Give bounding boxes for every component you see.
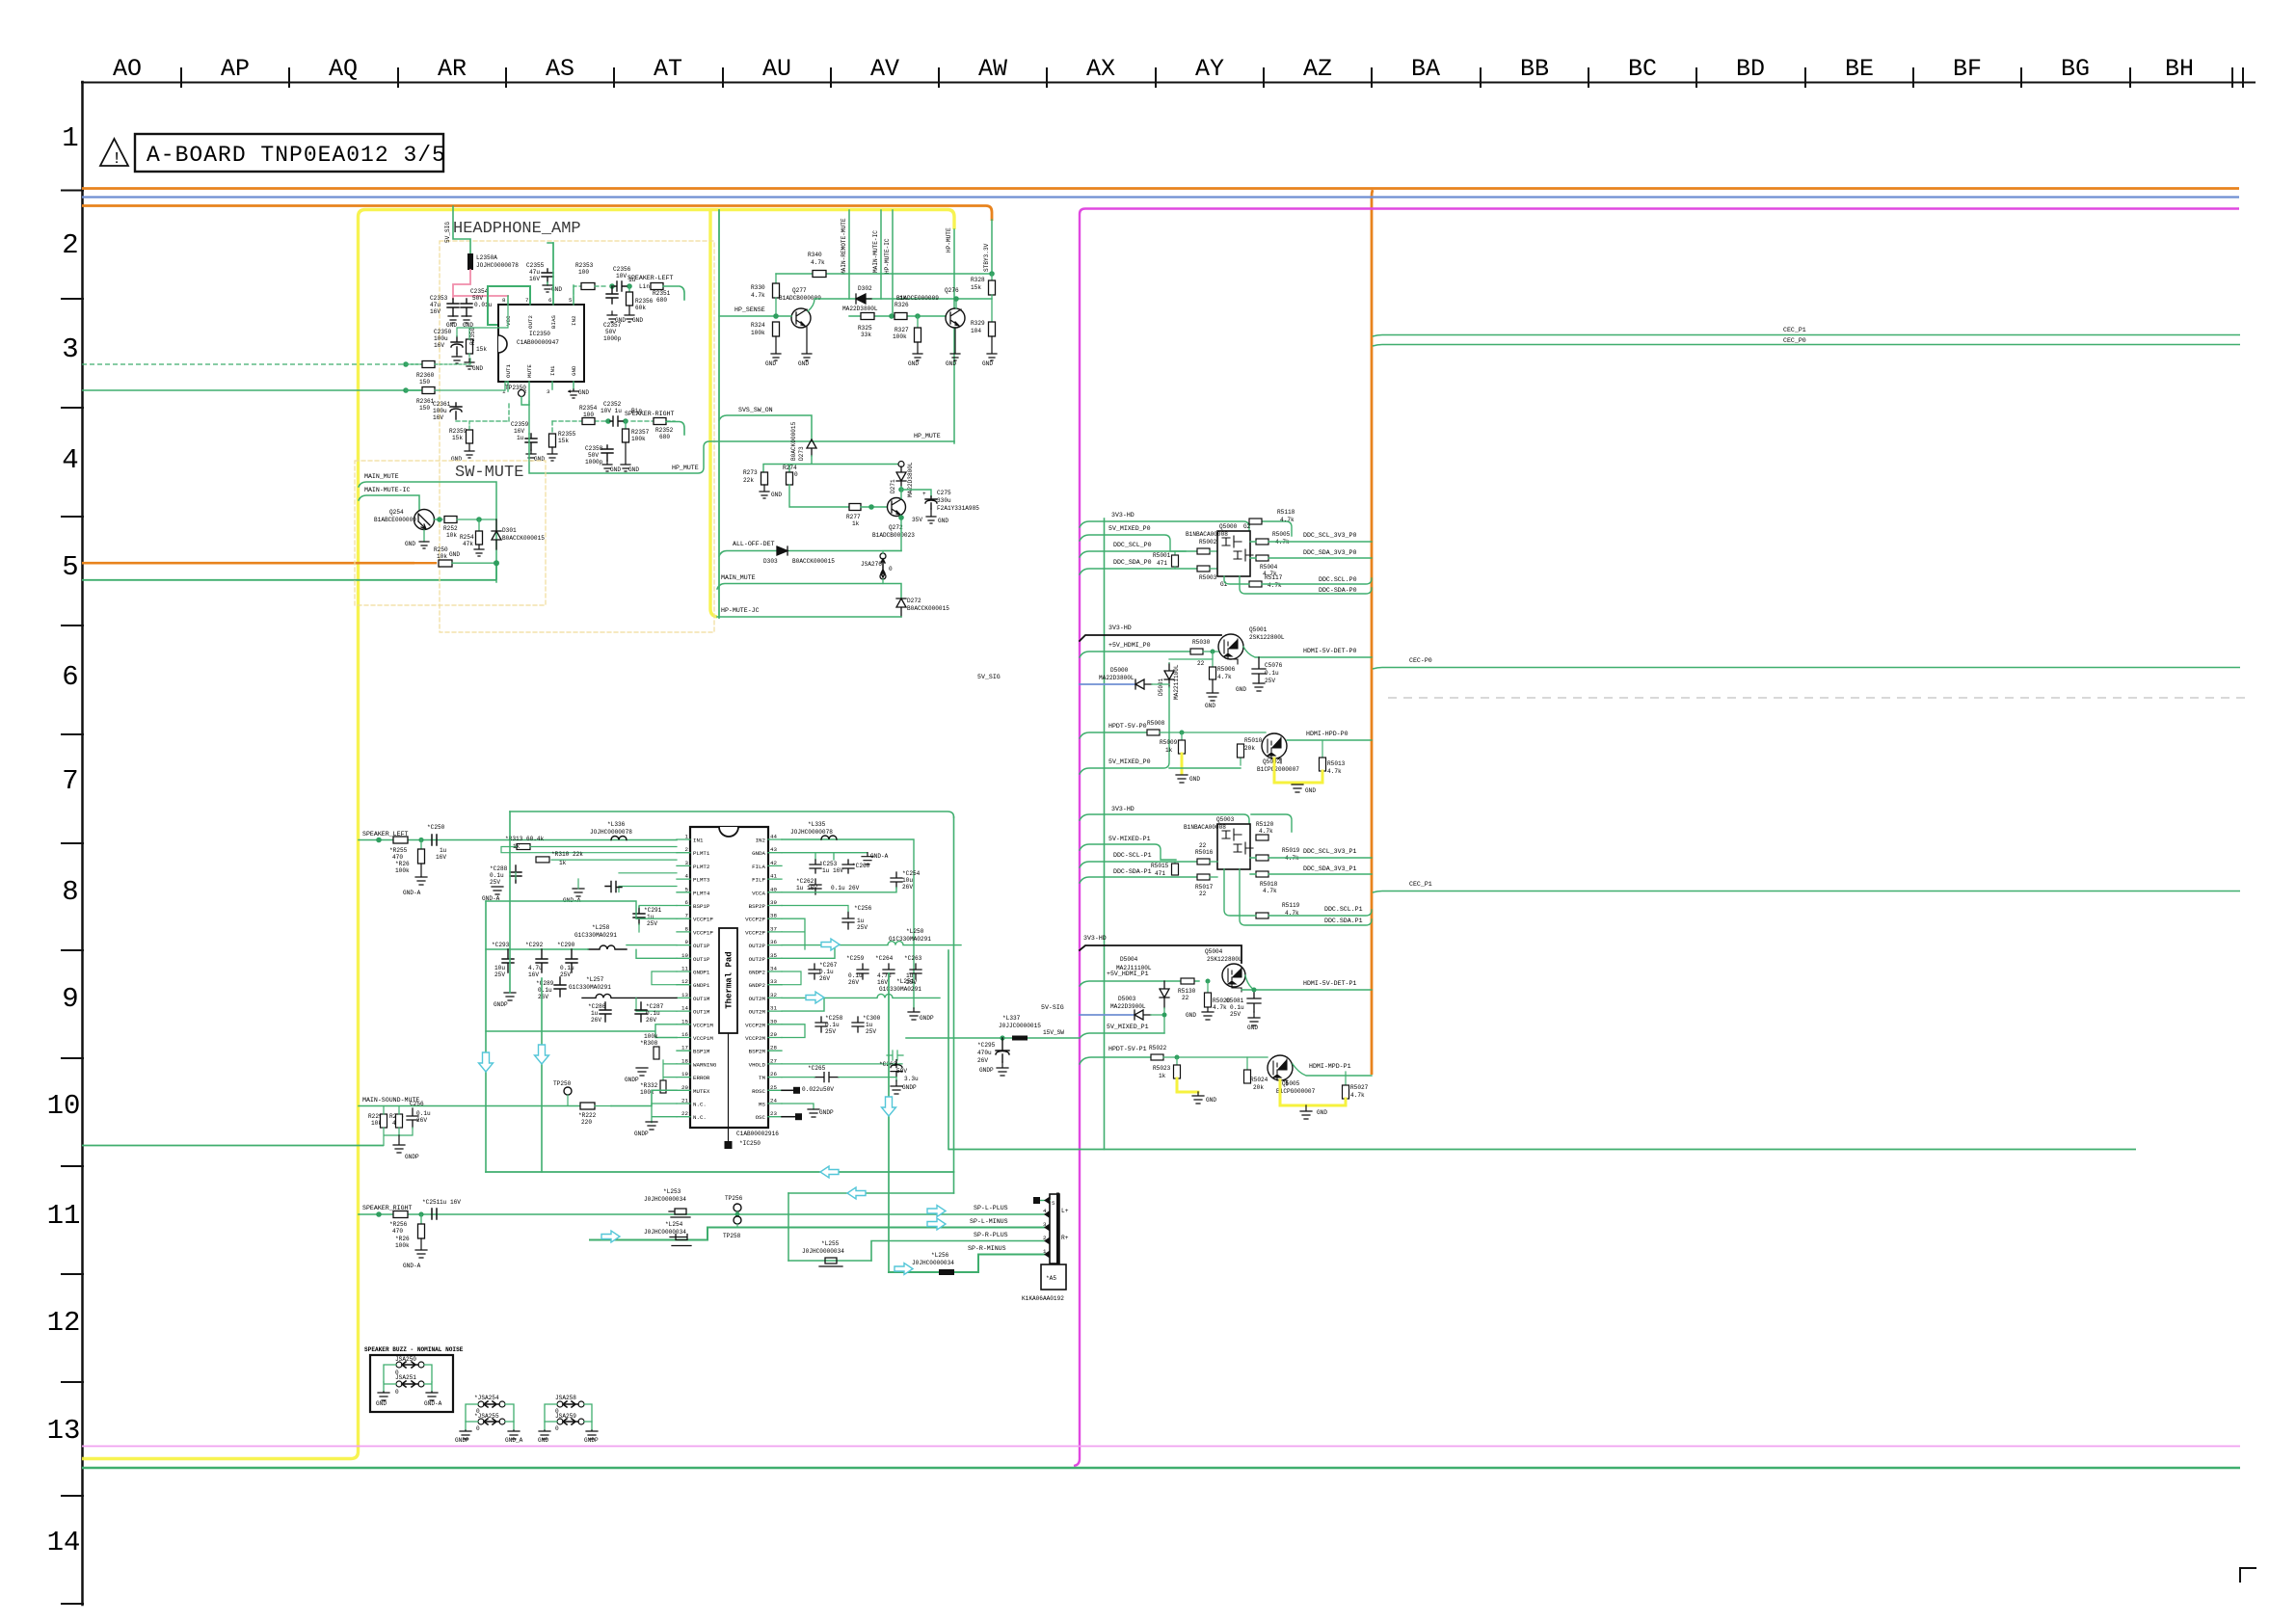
wire orange r250 [414, 562, 436, 564]
svg-text:4.7k: 4.7k [1259, 828, 1273, 835]
svg-text:26V: 26V [819, 975, 830, 982]
wire green dashed row3 [82, 363, 405, 365]
svg-text:GNDP: GNDP [979, 1067, 994, 1074]
svg-text:G1C330MA0291: G1C330MA0291 [569, 984, 611, 991]
svg-text:MA22D3800L: MA22D3800L [842, 306, 878, 312]
svg-text:*A5: *A5 [1046, 1275, 1056, 1282]
svg-text:MS: MS [759, 1102, 765, 1108]
svg-text:*L335: *L335 [808, 821, 826, 828]
capacitor C2355 [542, 269, 553, 282]
svg-text:3: 3 [547, 388, 550, 395]
svg-text:20k: 20k [1253, 1084, 1264, 1091]
svg-text:C1AB00002916: C1AB00002916 [736, 1131, 779, 1137]
svg-text:L2350A: L2350A [476, 254, 497, 261]
capacitor C275 [925, 496, 937, 509]
capacitor C293 [502, 949, 514, 972]
resistor R255 [393, 837, 408, 843]
svg-text:GND: GND [449, 551, 460, 558]
wire down to L255 [788, 1193, 789, 1261]
svg-text:HDMI-MPD-P1: HDMI-MPD-P1 [1309, 1063, 1351, 1070]
svg-text:HP-MUTE: HP-MUTE [946, 227, 952, 253]
svg-text:4: 4 [685, 873, 689, 880]
svg-text:3: 3 [62, 333, 78, 365]
wire out1p [486, 945, 677, 959]
ground R254 [474, 545, 484, 556]
svg-text:SPEAKER BUZZ - NOMINAL NOISE: SPEAKER BUZZ - NOMINAL NOISE [364, 1346, 464, 1353]
junction dots spr [376, 1211, 382, 1217]
resistor R5119 [1256, 913, 1268, 918]
capacitor C292 [536, 949, 547, 972]
svg-text:R5022: R5022 [1149, 1045, 1167, 1051]
svg-text:8: 8 [685, 925, 689, 932]
svg-text:Q5003: Q5003 [1216, 816, 1235, 823]
svg-text:SP-L-MINUS: SP-L-MINUS [970, 1218, 1008, 1225]
svg-text:1k: 1k [559, 860, 567, 866]
svg-text:GNDP: GNDP [494, 1001, 508, 1008]
resistor R2357 [625, 421, 627, 429]
svg-text:IN1: IN1 [693, 838, 704, 844]
svg-text:ALL-OFF-DET: ALL-OFF-DET [733, 541, 775, 547]
svg-text:19: 19 [681, 1071, 688, 1078]
svg-text:BSP1M: BSP1M [693, 1049, 710, 1055]
wire ddc_sda_p0 [1080, 569, 1197, 574]
svg-text:GND: GND [538, 1437, 548, 1444]
wire out2 loop [488, 286, 530, 325]
svg-text:27: 27 [770, 1057, 777, 1064]
svg-text:BD: BD [1736, 55, 1765, 83]
ground GNDP jsa2 [586, 1430, 598, 1439]
dashed block boundary [355, 461, 546, 605]
resistor R332 [660, 1080, 666, 1093]
svg-text:100k: 100k [395, 1242, 410, 1249]
fet block Q5003 [1217, 824, 1250, 869]
capacitor C265 [814, 1073, 839, 1082]
svg-text:AV: AV [870, 55, 899, 83]
wire 3v3-hd b4 black [1080, 945, 1241, 963]
svg-text:5V_SIG: 5V_SIG [977, 674, 1001, 680]
svg-text:680: 680 [656, 297, 667, 304]
wire 5v_mixed_p0 [1080, 535, 1186, 551]
ground GNDP c295 [997, 1062, 1008, 1076]
wire hpdt.5v.p0 [1080, 732, 1147, 738]
capacitor C295 [996, 1038, 1009, 1062]
svg-text:GNDP: GNDP [455, 1437, 469, 1444]
transistor Q277 [791, 308, 811, 328]
capacitor C287 [635, 1002, 647, 1022]
wire green CEC_P1 long [1373, 335, 2240, 337]
yellow gnd path r5009 [1181, 754, 1184, 773]
svg-text:25V: 25V [857, 924, 868, 931]
svg-text:16V: 16V [433, 414, 443, 421]
svg-text:*R26: *R26 [395, 1236, 410, 1242]
svg-text:7: 7 [525, 297, 529, 304]
wire left loop vertical2 [485, 901, 487, 1172]
svg-text:GND: GND [1206, 1097, 1216, 1104]
capacitor C266 vhold [782, 1051, 903, 1064]
svg-text:HP-MUTE-JC: HP-MUTE-JC [721, 607, 760, 614]
wire L255 row [788, 1260, 871, 1262]
svg-text:*L337: *L337 [1002, 1015, 1021, 1022]
svg-text:0.1u: 0.1u [538, 987, 552, 994]
diode D272 [896, 599, 906, 617]
svg-text:GND: GND [938, 518, 948, 524]
svg-text:GND: GND [1317, 1109, 1327, 1116]
svg-text:CEC_P1: CEC_P1 [1783, 327, 1806, 333]
grey dashed fold mark [1388, 697, 2246, 699]
svg-text:16V: 16V [436, 854, 446, 861]
svg-text:HDMI-HPD-P0: HDMI-HPD-P0 [1306, 731, 1348, 737]
wire ddc_sda_3v3_p0 out [1250, 557, 1372, 559]
svg-text:15: 15 [681, 1018, 688, 1024]
svg-text:L+: L+ [1061, 1208, 1069, 1214]
svg-text:GND: GND [610, 466, 621, 473]
svg-text:*C287: *C287 [646, 1003, 664, 1010]
wire q254 collector [434, 519, 442, 520]
diode D5003 [1135, 1010, 1151, 1020]
svg-text:Q254: Q254 [389, 509, 404, 516]
capacitor C2353 [447, 299, 459, 316]
svg-text:*C286: *C286 [588, 1003, 606, 1010]
svg-text:22: 22 [1199, 842, 1207, 849]
svg-text:R5004: R5004 [1260, 564, 1278, 571]
wire jsa276 links [883, 551, 901, 584]
svg-text:1000p: 1000p [603, 335, 622, 342]
svg-text:8: 8 [62, 876, 78, 908]
svg-text:15k: 15k [558, 438, 569, 444]
svg-text:33: 33 [770, 978, 777, 985]
svg-text:*C300: *C300 [863, 1015, 881, 1022]
svg-text:GND: GND [628, 466, 639, 473]
connector pin5 stub [1038, 1200, 1050, 1202]
svg-text:60k: 60k [635, 305, 646, 311]
svg-text:R5120: R5120 [1256, 821, 1274, 828]
arrow down1 [479, 1052, 494, 1072]
svg-text:C2350: C2350 [434, 329, 452, 335]
wire 5v_mixed_p1 [1080, 844, 1176, 860]
wire ddc.scl.p1 [1224, 869, 1372, 916]
wire +5v_hdmi_p0 [1080, 652, 1190, 657]
svg-text:25V: 25V [1230, 1011, 1241, 1018]
svg-text:9: 9 [62, 983, 78, 1015]
svg-text:5: 5 [569, 297, 573, 304]
wire green CEC-P0 mid [1373, 668, 2240, 670]
svg-text:5V_SIG: 5V_SIG [444, 222, 451, 243]
wire w1 right vertical [953, 817, 955, 1193]
resistor R5017 [1197, 874, 1210, 880]
capacitor C259 [857, 964, 868, 979]
wire 5v_sig blue p1 [1080, 1014, 1135, 1016]
svg-text:*C290: *C290 [557, 942, 575, 948]
svg-text:GND: GND [571, 365, 577, 376]
wire tm row [782, 1078, 896, 1081]
svg-text:14: 14 [681, 1005, 688, 1012]
wire d5003 net [1151, 1008, 1164, 1033]
svg-text:50V: 50V [588, 452, 599, 459]
wire mute dashed [456, 401, 529, 421]
svg-text:50V: 50V [896, 1068, 907, 1075]
svg-text:R5003: R5003 [1199, 574, 1217, 581]
svg-text:GND: GND [632, 317, 643, 324]
wire ddc_scl_3v3_p1 [1250, 857, 1372, 859]
svg-text:GND: GND [1186, 1012, 1196, 1019]
svg-text:7: 7 [62, 765, 78, 797]
wire main-sound-mute [359, 1090, 677, 1105]
transistor Q272 [888, 498, 906, 517]
wire nc pins [652, 1104, 677, 1123]
svg-text:HEADPHONE_AMP: HEADPHONE_AMP [453, 220, 581, 238]
svg-text:R5006: R5006 [1217, 666, 1236, 673]
svg-text:OUT2: OUT2 [527, 315, 534, 329]
svg-text:1k: 1k [513, 843, 521, 850]
diode D303 [777, 546, 788, 555]
svg-text:FILA: FILA [752, 864, 765, 870]
svg-text:AO: AO [113, 55, 142, 83]
pin osc stub [782, 1116, 795, 1118]
svg-text:OUT1M: OUT1M [693, 1009, 710, 1016]
ground R273 [760, 485, 769, 498]
wire jsa251 [384, 1382, 432, 1392]
svg-text:5: 5 [685, 886, 689, 892]
svg-text:2: 2 [685, 846, 689, 853]
wire hdmi-hpd-p0 [1287, 739, 1372, 741]
svg-text:*IC250: *IC250 [739, 1140, 761, 1147]
svg-text:AR: AR [438, 55, 467, 83]
capacitor C251 [432, 1209, 437, 1219]
svg-text:B1CPG000007: B1CPG000007 [1276, 1088, 1316, 1095]
ground GNDP left [504, 993, 516, 1000]
svg-text:4.7k: 4.7k [1268, 582, 1282, 589]
MUTE TRANSISTORS [719, 210, 997, 618]
resistor R5019 [1256, 855, 1268, 861]
svg-text:MUTE: MUTE [526, 364, 533, 378]
svg-text:150: 150 [419, 379, 430, 386]
ground GND-A spl [415, 864, 427, 885]
svg-text:26V: 26V [538, 994, 548, 1000]
wire plmt3 [551, 860, 677, 873]
wire ddc_sda_p1 [1080, 877, 1197, 883]
resistor R2360 [406, 363, 422, 365]
svg-text:Q5000: Q5000 [1219, 523, 1238, 530]
svg-text:MAIN_MUTE: MAIN_MUTE [721, 574, 756, 581]
svg-text:15k: 15k [476, 346, 487, 353]
svg-text:10V 1u: 10V 1u [601, 408, 622, 414]
HEADPHONE AMP [403, 206, 954, 632]
wire bsp2p [782, 906, 848, 912]
svg-text:*C262: *C262 [796, 878, 814, 885]
capacitor C289 [554, 977, 566, 997]
svg-text:R5117: R5117 [1265, 574, 1283, 581]
svg-text:0.1u: 0.1u [819, 969, 834, 975]
svg-text:10u: 10u [494, 965, 505, 971]
diode D5004 [1160, 981, 1169, 1008]
resistor R310 [536, 857, 549, 863]
svg-text:BF: BF [1953, 55, 1982, 83]
resistor R5002 [1197, 548, 1210, 554]
svg-text:F2A1Y331A985: F2A1Y331A985 [937, 505, 979, 512]
svg-text:50V: 50V [605, 329, 616, 335]
capacitor C2354 [461, 299, 472, 316]
svg-text:10: 10 [681, 952, 688, 959]
svg-text:VCCP2P: VCCP2P [745, 929, 765, 936]
svg-text:5: 5 [62, 551, 78, 583]
svg-text:100k: 100k [631, 436, 646, 442]
svg-text:26: 26 [770, 1071, 777, 1078]
svg-text:1u: 1u [591, 1010, 599, 1017]
svg-text:20k: 20k [1244, 745, 1255, 752]
svg-text:GNDP1: GNDP1 [693, 970, 710, 976]
junction dot d271 [898, 487, 904, 492]
svg-text:BSP1P: BSP1P [693, 903, 710, 910]
wire vcc branch [457, 296, 508, 339]
resistor R5030 [1190, 649, 1203, 654]
svg-text:MAIN-REMOTE-MUTE: MAIN-REMOTE-MUTE [841, 218, 847, 275]
svg-text:21: 21 [681, 1098, 688, 1104]
wire ddc_sda_3v3_p1 [1250, 873, 1372, 875]
svg-text:D272: D272 [907, 598, 921, 604]
svg-text:*JSA254: *JSA254 [474, 1395, 499, 1401]
wire vccp2p loop [782, 918, 805, 949]
svg-text:471: 471 [1157, 560, 1167, 567]
diode D301 [492, 519, 501, 549]
svg-text:AX: AX [1086, 55, 1115, 83]
svg-text:R2351: R2351 [653, 290, 671, 297]
svg-text:4.7k: 4.7k [1327, 768, 1342, 775]
junction dot hpd p0 [1180, 731, 1185, 735]
vertical feeder x922 [888, 973, 890, 1272]
svg-text:3: 3 [685, 860, 689, 866]
wire collector row [808, 299, 992, 311]
svg-text:R252: R252 [443, 525, 458, 532]
svg-text:0.022u50V: 0.022u50V [802, 1086, 834, 1093]
svg-text:R326: R326 [894, 302, 909, 308]
junction dot q276c [953, 296, 959, 302]
svg-text:26V: 26V [902, 884, 913, 891]
svg-text:R5013: R5013 [1327, 760, 1346, 767]
svg-text:GND: GND [1205, 703, 1215, 709]
svg-text:12: 12 [47, 1307, 81, 1339]
svg-text:D273: D273 [798, 446, 805, 461]
resistor R273 [761, 472, 768, 485]
svg-text:26V: 26V [646, 1017, 656, 1024]
svg-text:N.C.: N.C. [693, 1114, 707, 1121]
svg-text:C2352: C2352 [603, 401, 622, 408]
ground GND-A plmt [492, 887, 584, 896]
svg-text:MAIN_MUTE: MAIN_MUTE [364, 473, 399, 480]
svg-text:AU: AU [762, 55, 791, 83]
wire out1m [636, 998, 677, 1011]
capacitor C2357 [606, 286, 618, 304]
svg-text:Q277: Q277 [792, 287, 807, 294]
wire jsa254 [466, 1404, 514, 1422]
svg-text:2SK122800L: 2SK122800L [1207, 956, 1242, 963]
resistor R2352 [654, 418, 666, 425]
svg-text:GND: GND [1247, 1024, 1258, 1031]
svg-text:0.1u: 0.1u [1265, 670, 1279, 677]
ground GND_A jsa [508, 1430, 520, 1439]
wire hpdt-5v-p1 [1080, 1057, 1151, 1064]
row ticks [62, 191, 83, 1605]
svg-text:PLMT4: PLMT4 [693, 890, 710, 896]
svg-text:DDC_SCL_3V3_P1: DDC_SCL_3V3_P1 [1303, 848, 1356, 855]
arrow right spl-minus entry [601, 1231, 620, 1242]
svg-text:B0ACCK000015: B0ACCK000015 [502, 535, 545, 542]
resistor R254 [478, 519, 480, 531]
BOTTOM CONNECTOR [486, 817, 1080, 1302]
svg-text:+: + [922, 491, 926, 497]
svg-text:R5005: R5005 [1272, 531, 1291, 538]
svg-text:R5010: R5010 [1244, 737, 1263, 744]
wire sp-r-minus [889, 1255, 1050, 1273]
svg-text:GND: GND [1189, 776, 1200, 783]
svg-text:R5001: R5001 [1153, 552, 1171, 559]
svg-text:4.7k: 4.7k [1263, 888, 1277, 894]
svg-text:GND: GND [578, 389, 589, 396]
svg-text:4.7k: 4.7k [1213, 1004, 1227, 1011]
ground GNDP nc [646, 1122, 657, 1130]
wire jsa258 [545, 1404, 592, 1422]
svg-text:TP256: TP256 [725, 1195, 743, 1202]
resistor R5004 [1256, 555, 1268, 561]
svg-text:IN2: IN2 [571, 315, 577, 326]
svg-text:GND: GND [946, 360, 956, 367]
wire green row5b [82, 566, 496, 580]
wire hdmi-mpd-p1 [1293, 1064, 1372, 1076]
svg-text:R5009: R5009 [1160, 739, 1178, 746]
svg-text:10k: 10k [437, 553, 447, 560]
svg-text:47u: 47u [529, 269, 540, 276]
wire 3v3-hd b3 [1080, 814, 1292, 832]
resistor R5009 [1181, 732, 1183, 740]
svg-text:GNDP2: GNDP2 [749, 982, 766, 989]
svg-text:GND: GND [908, 360, 919, 367]
svg-text:GND: GND [1305, 787, 1316, 794]
svg-text:40: 40 [770, 886, 777, 892]
inductor L2350A [467, 253, 473, 270]
svg-text:GND: GND [472, 365, 483, 372]
test point TP258 [734, 1216, 741, 1224]
svg-text:MA22D3800L: MA22D3800L [1099, 675, 1135, 681]
ground C2357 R2356 [607, 306, 634, 322]
resistor R5018 [1256, 871, 1268, 877]
junction dot c295 [1000, 1035, 1004, 1040]
svg-text:GNDP: GNDP [902, 1084, 917, 1091]
svg-text:1u: 1u [857, 918, 865, 924]
svg-text:*L250: *L250 [906, 928, 924, 935]
wire jsa250 [384, 1365, 432, 1382]
wire speaker_left row [359, 839, 677, 841]
resistor network R313 [517, 844, 530, 850]
resistor R5010 [1240, 758, 1241, 765]
svg-text:MAIN-MUTE-IC: MAIN-MUTE-IC [872, 230, 879, 273]
svg-text:0.1u 26V: 0.1u 26V [831, 885, 860, 891]
capacitor C253 [810, 860, 821, 873]
svg-text:PLMT2: PLMT2 [693, 864, 710, 870]
svg-text:220: 220 [581, 1119, 592, 1126]
dashed block boundary [440, 241, 714, 632]
arrow right sp-r-minus [894, 1264, 913, 1275]
wire orange bus A top [82, 187, 2239, 190]
svg-text:3V3-HD: 3V3-HD [1083, 935, 1107, 942]
svg-text:4.7u: 4.7u [528, 965, 543, 971]
arrow down2 [535, 1045, 549, 1064]
svg-text:R250: R250 [434, 546, 448, 553]
svg-text:G2: G2 [1243, 523, 1251, 530]
arrow left 1238 [847, 1187, 866, 1199]
grounds q277 r324 [771, 327, 812, 360]
svg-text:471: 471 [1155, 870, 1165, 877]
svg-text:104: 104 [971, 328, 981, 334]
svg-text:C2359: C2359 [511, 421, 529, 428]
